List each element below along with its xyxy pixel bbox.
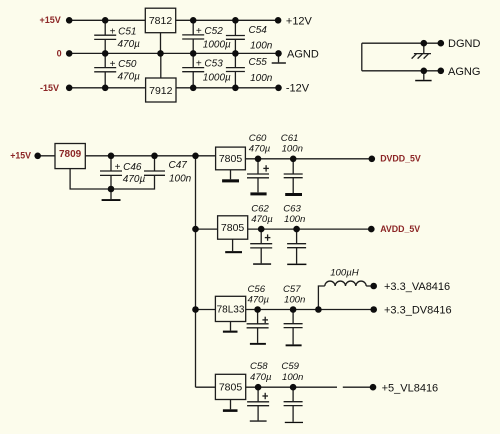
wire row3 input bbox=[196, 309, 216, 311]
capacitor C57 bbox=[283, 284, 305, 345]
svg-text:C59: C59 bbox=[281, 361, 299, 372]
junction dots row2 bbox=[192, 226, 199, 233]
junction dots row1 bbox=[34, 153, 41, 160]
ground AGNG bar bbox=[415, 71, 431, 82]
ground under C46 bbox=[102, 189, 121, 201]
svg-text:+ C50: + C50 bbox=[110, 59, 137, 70]
wire 7812 ground stub bbox=[160, 33, 162, 54]
ground under 78L33 bbox=[223, 322, 238, 333]
wire 7912 ground stub bbox=[160, 53, 162, 78]
regulator U-78L33 row3 bbox=[215, 296, 245, 321]
capacitor C53 bbox=[182, 53, 231, 87]
svg-text:470µ: 470µ bbox=[248, 295, 270, 306]
svg-text:470µ: 470µ bbox=[251, 214, 273, 225]
wire row3 output rail bbox=[246, 309, 374, 311]
svg-text:1000µ: 1000µ bbox=[203, 40, 231, 51]
wire -15V rail left bbox=[69, 87, 145, 89]
wire +12V rail right of 7812 bbox=[176, 19, 278, 21]
svg-text:C57: C57 bbox=[283, 284, 301, 295]
capacitor C60 bbox=[247, 133, 271, 193]
svg-text:C55: C55 bbox=[249, 57, 268, 68]
svg-text:+5_VL8416: +5_VL8416 bbox=[382, 382, 439, 394]
svg-text:100µH: 100µH bbox=[330, 267, 359, 278]
svg-text:100n: 100n bbox=[250, 73, 273, 84]
svg-text:C47: C47 bbox=[169, 160, 188, 171]
regulator U-7805 row2 bbox=[218, 216, 248, 239]
svg-text:100n: 100n bbox=[282, 372, 303, 383]
svg-text:-12V: -12V bbox=[286, 83, 310, 95]
wire 7809 output rail bbox=[85, 155, 215, 157]
svg-text:+ C51: + C51 bbox=[110, 27, 137, 38]
wire DGND-AGNG link vertical bbox=[361, 43, 363, 71]
svg-text:78L33: 78L33 bbox=[217, 305, 245, 316]
svg-text:100n: 100n bbox=[169, 174, 192, 185]
svg-text:C60: C60 bbox=[249, 133, 267, 144]
svg-text:7805: 7805 bbox=[221, 222, 245, 234]
ground DGND chassis symbol bbox=[412, 43, 431, 58]
svg-text:DGND: DGND bbox=[448, 38, 480, 50]
ground under C62 bbox=[253, 263, 271, 265]
capacitor C55 bbox=[226, 53, 273, 87]
wire 7809 ground path bbox=[70, 169, 111, 189]
wire -12V rail right of 7912 bbox=[176, 87, 279, 89]
svg-text:DVDD_5V: DVDD_5V bbox=[380, 154, 421, 164]
wire row2 input bbox=[196, 228, 218, 230]
regulator U-7809 bbox=[55, 144, 85, 169]
svg-text:AGND: AGND bbox=[287, 48, 319, 60]
wire row4 input bbox=[196, 386, 216, 388]
svg-text:+3.3_VA8416: +3.3_VA8416 bbox=[384, 281, 450, 293]
svg-text:C62: C62 bbox=[251, 203, 269, 214]
svg-text:100n: 100n bbox=[284, 214, 305, 225]
regulator U-7812 bbox=[145, 8, 175, 33]
inductor L1 100uH bbox=[318, 267, 373, 309]
svg-text:AGNG: AGNG bbox=[448, 66, 480, 78]
svg-text:+15V: +15V bbox=[10, 151, 31, 161]
svg-text:100n: 100n bbox=[284, 295, 305, 306]
svg-text:C54: C54 bbox=[249, 25, 268, 36]
svg-text:470µ: 470µ bbox=[250, 372, 272, 383]
capacitor C59 bbox=[281, 361, 303, 422]
ground under C63 bbox=[287, 264, 306, 266]
svg-text:470µ: 470µ bbox=[118, 72, 141, 83]
junction dots top section bbox=[66, 17, 73, 24]
capacitor C61 bbox=[281, 133, 303, 193]
regulator U-7912 bbox=[146, 78, 176, 102]
ground under C61 bbox=[285, 193, 302, 196]
svg-text:C58: C58 bbox=[250, 361, 268, 372]
capacitor C47 bbox=[111, 156, 192, 189]
wire main bus vertical bbox=[195, 156, 197, 387]
wire AGNG net bbox=[362, 70, 441, 72]
wire row1 output rail bbox=[245, 158, 371, 160]
wire row2 output rail bbox=[248, 228, 372, 230]
svg-text:470µ: 470µ bbox=[123, 174, 146, 185]
capacitor C62 bbox=[250, 203, 273, 263]
capacitor C51 bbox=[94, 20, 140, 53]
svg-text:+ C53: + C53 bbox=[196, 59, 223, 70]
svg-text:+3.3_DV8416: +3.3_DV8416 bbox=[384, 304, 452, 316]
svg-text:C63: C63 bbox=[283, 203, 301, 214]
capacitor C58 bbox=[247, 361, 272, 420]
wire DGND net bbox=[362, 42, 441, 44]
ground under C57 bbox=[286, 344, 302, 346]
ground under C60 bbox=[250, 192, 266, 195]
junction dots DGND/AGNG bbox=[421, 40, 428, 47]
wire row4 output rail (segment 2 after gap) bbox=[343, 386, 373, 388]
ground under 7805 row1 bbox=[222, 170, 239, 183]
svg-text:+12V: +12V bbox=[286, 16, 313, 28]
ground under C56 bbox=[250, 343, 266, 345]
ground under C59 bbox=[285, 422, 303, 423]
svg-text:7809: 7809 bbox=[59, 149, 82, 160]
regulator U-7805 row4 bbox=[215, 374, 245, 399]
ground under 7805 row2 bbox=[225, 239, 242, 253]
capacitor C46 bbox=[100, 156, 145, 189]
svg-text:470µ: 470µ bbox=[118, 39, 141, 50]
svg-text:AVDD_5V: AVDD_5V bbox=[380, 224, 420, 234]
ground under 7805 row4 bbox=[223, 400, 238, 412]
capacitor C63 bbox=[283, 203, 306, 263]
svg-text:7912: 7912 bbox=[149, 85, 173, 97]
svg-text:7812: 7812 bbox=[149, 15, 173, 27]
capacitor C50 bbox=[94, 53, 140, 87]
svg-text:470µ: 470µ bbox=[249, 144, 271, 155]
svg-text:100n: 100n bbox=[282, 144, 303, 155]
svg-text:1000µ: 1000µ bbox=[203, 72, 231, 83]
ground under C58 bbox=[250, 420, 267, 421]
wire +15V to 7809 bbox=[38, 155, 55, 157]
capacitor C54 bbox=[226, 20, 273, 53]
svg-text:7805: 7805 bbox=[219, 382, 243, 394]
regulator U-7805 row1 bbox=[216, 147, 246, 170]
svg-text:C56: C56 bbox=[248, 284, 266, 295]
junction dots row4 bbox=[255, 384, 262, 391]
ground AGND stub+bar bbox=[272, 53, 286, 63]
svg-text:+ C46: + C46 bbox=[115, 162, 142, 173]
capacitor C52 bbox=[182, 20, 231, 53]
wire row4 output rail (segment 1) bbox=[246, 386, 337, 388]
svg-text:+ C52: + C52 bbox=[196, 26, 223, 37]
capacitor C56 bbox=[247, 284, 270, 343]
wire +15V rail left bbox=[69, 19, 145, 21]
svg-text:+15V: +15V bbox=[40, 15, 61, 25]
svg-text:7805: 7805 bbox=[219, 153, 243, 165]
svg-text:C61: C61 bbox=[281, 133, 299, 144]
svg-text:100n: 100n bbox=[250, 41, 273, 52]
svg-text:0: 0 bbox=[57, 49, 62, 59]
svg-text:-15V: -15V bbox=[40, 83, 59, 93]
junction dots row3 bbox=[192, 306, 199, 313]
wire 0V rail bbox=[69, 52, 278, 54]
